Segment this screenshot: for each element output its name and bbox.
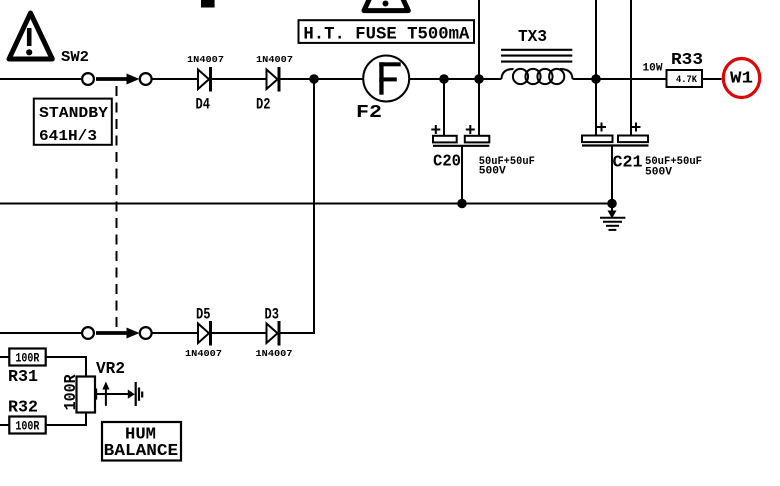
svg-text:10W: 10W — [643, 63, 663, 75]
wire (left feed, lower pole) — [0, 332, 82, 334]
svg-text:W1: W1 — [730, 70, 753, 89]
diode D3 — [256, 306, 293, 360]
svg-text:TX3: TX3 — [518, 28, 547, 47]
node junction (C20 left leg) — [439, 74, 449, 84]
chassis ground (VR2 wiper) — [128, 382, 142, 406]
svg-text:641H/3: 641H/3 — [39, 128, 97, 145]
wire (switch to D5) — [152, 332, 198, 334]
wire (F2 to TX3) — [409, 78, 501, 80]
svg-text:1N4007: 1N4007 — [256, 55, 293, 65]
svg-text:SW2: SW2 — [61, 49, 89, 66]
wire (VR2 bottom to R32) — [46, 413, 86, 426]
gang dashed link (SW2 mechanical coupling) — [116, 86, 118, 327]
wire (stub to R31) — [0, 356, 10, 358]
svg-text:F2: F2 — [356, 103, 382, 123]
diode D5 — [185, 306, 222, 360]
svg-text:C20: C20 — [433, 153, 461, 172]
svg-text:1N4007: 1N4007 — [185, 349, 222, 359]
node junction (C20 right leg / HT feed) — [474, 74, 484, 84]
svg-text:1N4007: 1N4007 — [256, 349, 293, 359]
svg-text:R32: R32 — [8, 399, 38, 418]
terminal W1 — [723, 59, 759, 98]
warning triangle (top-center, clipped) — [364, 0, 408, 11]
wire (TX3 to R33) — [573, 78, 667, 80]
svg-text:1N4007: 1N4007 — [187, 55, 224, 65]
clipped symbol remnant (top edge) — [201, 0, 215, 8]
callout box H.T. FUSE T500mA — [299, 20, 475, 45]
svg-text:STANDBY: STANDBY — [39, 105, 108, 122]
ground — [600, 204, 625, 230]
svg-text:100R: 100R — [15, 352, 39, 366]
wire (D4 to D2) — [212, 78, 267, 80]
resistor R32 — [8, 399, 46, 434]
wire (vertical riser to top at C21 right, crossing) — [630, 0, 632, 136]
wire (branch down to lower pole) — [280, 79, 314, 333]
capacitor C21 — [582, 79, 702, 204]
node junction (TX3 output / C21) — [591, 74, 601, 84]
svg-text:C21: C21 — [613, 154, 643, 173]
svg-text:R33: R33 — [671, 51, 703, 70]
fuse F2 — [356, 56, 409, 124]
svg-text:D5: D5 — [196, 306, 211, 324]
node junction (D2 output / lower branch) — [309, 74, 319, 84]
svg-text:D4: D4 — [196, 96, 211, 114]
wire (R31 to VR2 top) — [46, 357, 86, 377]
svg-text:100R: 100R — [62, 374, 81, 411]
svg-text:100R: 100R — [15, 420, 39, 434]
wire (R33 to W1) — [702, 78, 722, 80]
svg-text:500V: 500V — [479, 166, 506, 178]
svg-text:BALANCE: BALANCE — [104, 442, 178, 461]
wire (D2 to fuse F2) — [281, 78, 364, 80]
svg-text:R31: R31 — [8, 368, 38, 387]
diode D2 — [256, 55, 293, 114]
svg-text:D2: D2 — [256, 96, 271, 114]
wire (vertical riser to top at C21 left) — [595, 0, 597, 79]
transformer TX3 (smoothing choke) — [501, 28, 573, 84]
wire (switch to D4) — [152, 78, 198, 80]
svg-text:H.T. FUSE T500mA: H.T. FUSE T500mA — [303, 25, 469, 45]
capacitor C20 — [431, 79, 535, 204]
diode D4 — [187, 55, 224, 114]
warning triangle (top-left) — [9, 13, 52, 59]
wire (left feed, top pole) — [0, 78, 82, 80]
svg-text:500V: 500V — [645, 167, 672, 179]
callout box STANDBY 641H/3 — [34, 99, 112, 145]
wire (stub to R32) — [0, 424, 10, 426]
resistor R31 — [8, 349, 46, 388]
wire (vertical riser to top at C20) — [478, 0, 480, 79]
switch SW2 pole A — [82, 73, 152, 85]
svg-text:VR2: VR2 — [96, 360, 125, 379]
node junction (C20 to ground rail) — [457, 199, 467, 209]
svg-text:4.7K: 4.7K — [676, 75, 697, 86]
wire (ground rail) — [0, 203, 612, 205]
switch SW2 pole B — [82, 327, 152, 339]
wire (D5 to D3) — [212, 332, 267, 334]
node junction (C21 to ground rail) — [607, 199, 617, 209]
callout box HUM BALANCE — [102, 422, 181, 461]
svg-text:D3: D3 — [265, 306, 280, 324]
potentiometer VR2 — [62, 360, 133, 413]
resistor R33 — [643, 51, 704, 87]
